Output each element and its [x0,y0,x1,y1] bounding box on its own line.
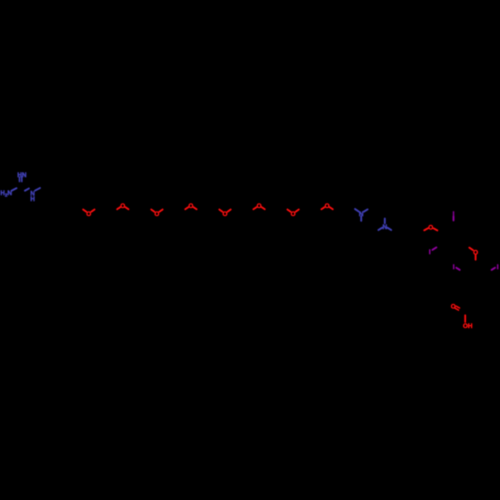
O8 left half-bond [321,207,324,209]
bridge O half-bond down [475,255,477,260]
svg-text:O: O [451,304,456,311]
I left half-bond (up-right) [432,247,436,250]
O1 left half-bond [83,210,86,212]
O4 left half-bond [185,207,188,209]
O3 left half-bond [151,210,154,212]
ether O left half-bond [424,228,428,230]
svg-text:O: O [223,211,228,218]
N1 ring half-bond (down) [360,216,362,221]
I half-bond down-right [456,268,459,270]
svg-text:I: I [453,264,455,271]
O3 right half-bond [159,210,162,212]
svg-text:H: H [30,196,35,203]
bond N-CH2 (blue half) [35,188,40,191]
svg-text:OH: OH [463,323,473,330]
bond C-NH (blue half) [25,189,29,191]
N2 ring half-bond (up) [384,219,386,224]
O6 left half-bond [253,207,256,209]
O5 right half-bond [228,210,231,212]
svg-text:I: I [497,264,499,271]
svg-text:O: O [86,211,91,218]
bond H2N-C (blue half) [12,188,17,190]
I half-bond down-left [492,268,495,270]
bond C-OH (red half) [464,315,466,322]
I top half-bond (down) [453,217,455,221]
svg-text:O: O [291,211,296,218]
O6 right half-bond [262,207,265,209]
N1 ring half-bond (up-right) [364,209,368,211]
N2 chain half-bond (down-right) [387,228,391,230]
ether O right half-bond [434,228,438,230]
O2 left half-bond [117,207,120,209]
svg-text:O: O [154,211,159,218]
O5 left half-bond [219,210,222,212]
svg-text:O: O [428,225,433,232]
O7 right half-bond [296,210,299,212]
svg-text:I: I [429,249,431,256]
C=O double bond (red halves) [455,308,458,310]
O7 left half-bond [287,210,290,212]
bridge O half-bond up-left [469,248,473,251]
O8 right half-bond [330,207,333,209]
N1 chain half-bond (up-left) [355,209,359,212]
O1 right half-bond [91,210,94,212]
N2 ring half-bond (down-left) [378,228,382,230]
O4 right half-bond [193,207,196,209]
O2 right half-bond [125,207,128,209]
C=N double bond (blue half) [19,177,21,182]
